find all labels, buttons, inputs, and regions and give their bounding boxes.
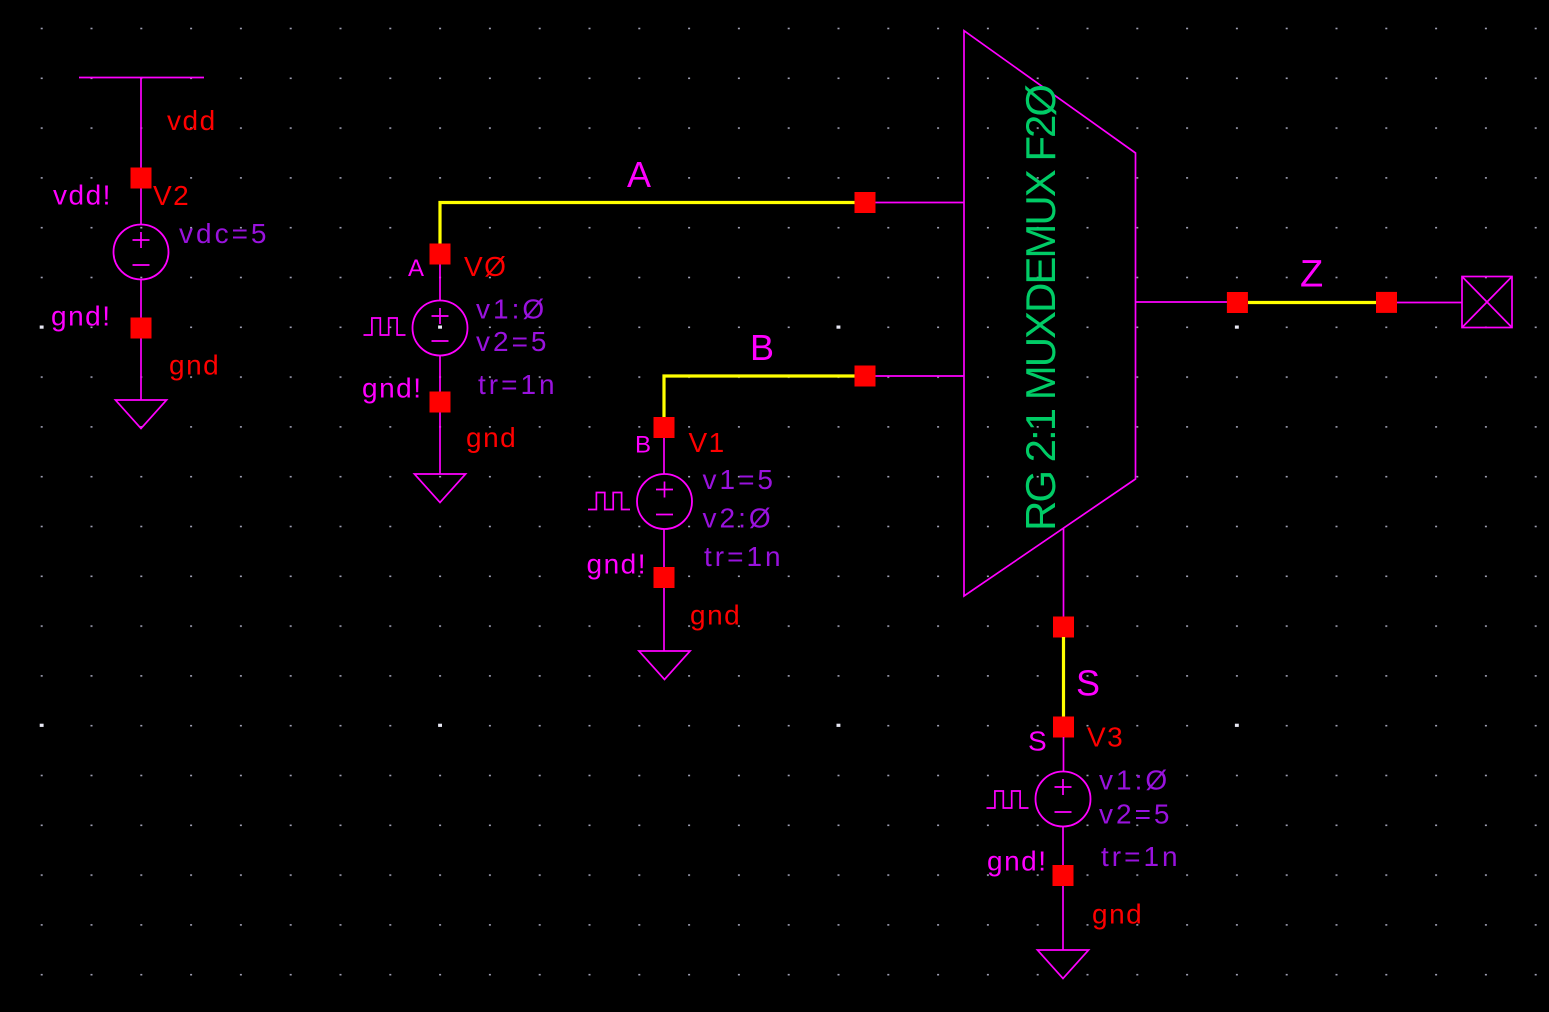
pin square V2 minus terminal [131, 318, 152, 339]
wire net B [664, 376, 865, 417]
svg-text:v2=5: v2=5 [1099, 799, 1173, 830]
wire vdd stem [140, 78, 142, 225]
svg-text:S: S [1028, 726, 1048, 757]
wire V0 pin to circle [439, 265, 441, 301]
svg-text:v1:Ø: v1:Ø [476, 294, 547, 325]
wire V1 minus to ground [663, 529, 665, 651]
svg-text:v2:Ø: v2:Ø [703, 503, 774, 534]
pin square mux select [1053, 617, 1074, 638]
pin square output right [1376, 292, 1397, 313]
ground symbol of V0 [414, 474, 465, 503]
svg-text:S: S [1076, 663, 1102, 704]
pin square mux input B [855, 366, 876, 387]
pin square V0 minus terminal [430, 392, 451, 413]
mux output stub [1136, 301, 1238, 303]
svg-text:gnd!: gnd! [362, 373, 423, 404]
pulse voltage source V1 [637, 474, 692, 529]
wire net A [440, 203, 865, 245]
ground symbol of V1 [639, 651, 690, 680]
mux 2:1 symbol body [964, 31, 1136, 596]
svg-text:vdc=5: vdc=5 [179, 218, 270, 249]
pulse voltage source V3 [1036, 772, 1091, 827]
pin square V1 minus terminal [654, 567, 675, 588]
major grid dots [40, 326, 1239, 727]
wire V2 minus to ground [140, 280, 142, 401]
svg-text:tr=1n: tr=1n [478, 369, 558, 400]
pin square V1 plus terminal [654, 417, 675, 438]
wire to output terminal [1397, 302, 1462, 304]
svg-text:v2=5: v2=5 [476, 326, 550, 357]
svg-text:VØ: VØ [464, 251, 507, 282]
svg-text:gnd: gnd [169, 350, 220, 381]
pulse waveform glyph V1 [588, 493, 630, 510]
svg-text:V2: V2 [153, 180, 190, 211]
svg-text:B: B [750, 327, 776, 368]
svg-text:gnd: gnd [1092, 899, 1143, 930]
svg-text:v1:Ø: v1:Ø [1099, 765, 1170, 796]
ground symbol of V2 [115, 400, 166, 429]
wire net Z [1248, 301, 1376, 304]
svg-text:gnd: gnd [690, 600, 741, 631]
svg-text:gnd!: gnd! [987, 846, 1048, 877]
pulse voltage source V0 [413, 301, 468, 356]
output terminal symbol Z [1462, 277, 1512, 328]
wire V3 minus to ground [1062, 827, 1064, 951]
svg-text:V1: V1 [689, 427, 726, 458]
svg-text:V3: V3 [1087, 722, 1124, 753]
svg-text:gnd: gnd [466, 422, 517, 453]
svg-text:B: B [635, 432, 652, 459]
svg-text:RG 2:1 MUXDEMUX F2Ø: RG 2:1 MUXDEMUX F2Ø [1017, 85, 1064, 531]
pulse waveform glyph V0 [364, 318, 406, 335]
wire V3 pin to circle [1063, 737, 1065, 772]
pulse waveform glyph V3 [987, 791, 1029, 808]
wire net S [1062, 637, 1065, 717]
svg-text:A: A [627, 154, 653, 195]
ground symbol of V3 [1037, 950, 1088, 979]
svg-text:A: A [408, 255, 425, 282]
wire V1 pin to circle [663, 438, 665, 475]
mux input stub A [865, 202, 964, 204]
pin square output left [1227, 292, 1248, 313]
svg-text:tr=1n: tr=1n [1101, 841, 1181, 872]
svg-text:v1=5: v1=5 [703, 464, 777, 495]
mux select stub S [1063, 528, 1065, 627]
mux input stub B [865, 375, 964, 377]
pin square V2 plus terminal [131, 168, 152, 189]
dc voltage source V2 [114, 225, 169, 280]
svg-text:vdd!: vdd! [53, 180, 112, 211]
svg-text:vdd: vdd [167, 105, 217, 136]
svg-text:Z: Z [1300, 254, 1325, 296]
vdd power symbol [79, 77, 204, 79]
svg-text:tr=1n: tr=1n [704, 541, 784, 572]
wire V0 minus to ground [439, 356, 441, 475]
pin square V3 minus terminal [1053, 865, 1074, 886]
pin square V0 plus terminal [430, 244, 451, 265]
pin square V3 plus terminal [1053, 717, 1074, 738]
pin square mux input A [855, 192, 876, 213]
svg-text:gnd!: gnd! [51, 301, 112, 332]
svg-text:gnd!: gnd! [587, 549, 648, 580]
